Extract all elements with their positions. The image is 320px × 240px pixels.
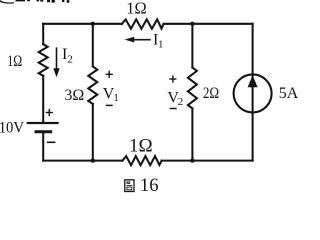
wire left to battery [42, 76, 44, 122]
svg-text:10V: 10V [0, 120, 24, 137]
svg-text:1Ω: 1Ω [129, 135, 153, 156]
current source I1 5A circle [234, 74, 272, 112]
wire 2ohm branch upper [191, 24, 193, 68]
svg-text:2: 2 [67, 53, 73, 65]
wire bottom right horizontal [162, 160, 253, 162]
battery V 10V top plate [28, 122, 58, 124]
svg-text:1: 1 [158, 39, 164, 51]
wire right branch [252, 24, 254, 161]
plus sign V2 [169, 75, 176, 82]
minus sign V2 [170, 108, 177, 110]
svg-text:3Ω: 3Ω [64, 87, 84, 104]
svg-text:5A: 5A [279, 85, 299, 102]
node A top junction [91, 22, 95, 26]
cropped text fragments top edge [0, 0, 70, 4]
battery V 10V bottom plate [36, 130, 51, 133]
current arrow I1 [125, 37, 151, 43]
wire top left horizontal [43, 23, 122, 25]
node B top junction [190, 22, 194, 26]
svg-text:1Ω: 1Ω [7, 53, 22, 70]
current source arrow 5A [248, 75, 258, 87]
wire middle branch lower [92, 104, 94, 161]
wire top right horizontal [164, 23, 253, 25]
minus sign V1 [106, 104, 113, 106]
current arrow I2 [53, 47, 59, 77]
node C bottom junction [91, 158, 95, 162]
resistor R3 2ohm [188, 68, 197, 109]
wire bottom left horizontal [43, 160, 122, 162]
resistor R2 3ohm [88, 67, 97, 105]
wire middle branch upper [92, 24, 94, 67]
svg-text:2: 2 [178, 96, 184, 108]
svg-text:1Ω: 1Ω [126, 0, 147, 17]
node D bottom junction [190, 158, 194, 162]
svg-text:16: 16 [140, 175, 159, 196]
resistor R1 1ohm left [39, 44, 48, 76]
plus sign V1 [106, 71, 113, 78]
wire battery to bottom [42, 133, 44, 161]
wire 2ohm branch lower [191, 109, 193, 161]
battery minus sign [47, 141, 56, 143]
wire left branch upper [42, 24, 44, 44]
resistor R bottom 1ohm [122, 156, 161, 165]
resistor R top 1ohm [122, 19, 164, 28]
svg-text:1: 1 [113, 92, 119, 104]
svg-text:2Ω: 2Ω [203, 85, 219, 102]
battery plus sign [46, 109, 53, 116]
caption glyph tu (figure) [125, 180, 134, 192]
